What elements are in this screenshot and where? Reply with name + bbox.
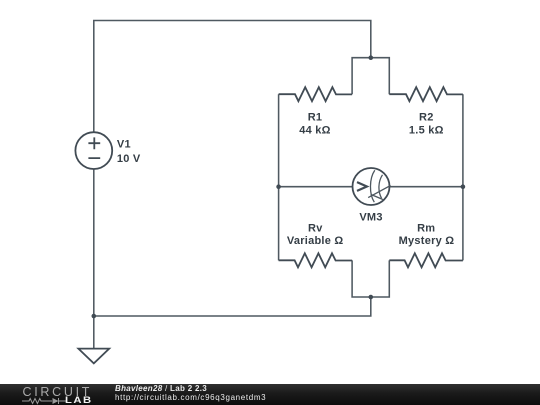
svg-text:V1: V1 xyxy=(117,139,131,151)
svg-text:1.5 kΩ: 1.5 kΩ xyxy=(409,124,444,136)
svg-text:Mystery Ω: Mystery Ω xyxy=(399,235,455,247)
svg-text:44 kΩ: 44 kΩ xyxy=(299,124,330,136)
svg-text:R1: R1 xyxy=(308,111,323,123)
svg-text:Variable Ω: Variable Ω xyxy=(287,235,344,247)
svg-text:Rv: Rv xyxy=(308,222,323,234)
svg-text:10 V: 10 V xyxy=(117,153,141,165)
svg-text:Rm: Rm xyxy=(417,222,435,234)
svg-text:VM3: VM3 xyxy=(359,212,382,224)
svg-text:R2: R2 xyxy=(419,111,434,123)
